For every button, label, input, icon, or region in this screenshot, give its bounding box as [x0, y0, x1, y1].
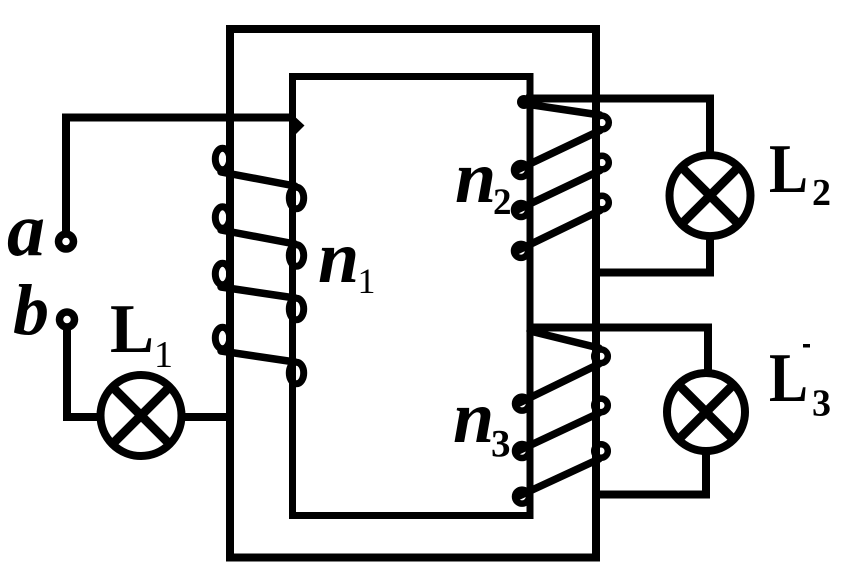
svg-text:3: 3 [812, 383, 831, 425]
winding n2 crossing 3 [517, 211, 600, 251]
winding n2 right loop 1 [595, 116, 609, 130]
winding n3 crossing 3 [518, 459, 599, 497]
transformer core inner rectangle [293, 77, 531, 516]
winding n3 left loop 1 [515, 397, 529, 411]
winding n3 entry crossing [530, 331, 599, 348]
winding n2 entry crossing [526, 104, 600, 115]
winding n1 entry bend [292, 114, 305, 138]
terminal b [60, 312, 75, 327]
wire: lamp L1 to core left edge [182, 413, 231, 421]
winding n1 left loop 1 [215, 148, 229, 170]
winding n3 right loop 1 [594, 350, 608, 364]
svg-text:1: 1 [154, 334, 173, 376]
lamp L1 [101, 375, 182, 456]
winding n1 right loop 2 [289, 245, 303, 267]
svg-text:L: L [769, 131, 808, 208]
winding n1 left loop 4 [215, 327, 229, 349]
svg-text:a: a [7, 188, 45, 272]
winding n3 right loop 3 [594, 444, 608, 458]
winding n2 right loop 2 [595, 156, 609, 170]
winding n2 crossing 1 [517, 131, 600, 171]
winding n1 crossing 3 [221, 287, 295, 298]
svg-text:1: 1 [358, 261, 376, 301]
svg-text:L: L [769, 340, 808, 417]
winding n1 right loop 3 [289, 298, 303, 320]
svg-text:b: b [13, 270, 49, 350]
transformer core outer rectangle [230, 29, 596, 558]
winding n3 left loop 3 [515, 490, 529, 504]
winding n2 right loop 3 [595, 196, 609, 210]
wire: winding n3 top to lamp L3 [530, 328, 708, 372]
winding n1 right loop 1 [289, 187, 303, 209]
wire: lamp L2 bottom return to core [596, 236, 710, 273]
winding n1 crossing 2 [221, 230, 295, 244]
winding n3 crossing 1 [518, 364, 599, 404]
winding n3 crossing 2 [518, 413, 599, 451]
ink speck above label L3 [803, 344, 810, 348]
svg-text:2: 2 [812, 172, 831, 214]
wire: lamp L3 bottom return to core [596, 451, 706, 495]
svg-text:n: n [455, 137, 496, 219]
winding n1 left loop 3 [215, 263, 229, 285]
winding n1 crossing 4 [221, 351, 295, 362]
wire: winding n2 top to lamp L2 [526, 99, 710, 154]
winding n2 left loop 2 [514, 203, 528, 217]
terminal a [59, 234, 74, 249]
winding n2 left loop 1 [514, 163, 528, 177]
winding n2 crossing 2 [517, 171, 600, 211]
svg-text:n: n [318, 217, 359, 299]
node: junction dot at top of winding n2 [517, 95, 531, 109]
svg-text:3: 3 [491, 423, 511, 466]
winding n3 right loop 2 [594, 399, 608, 413]
primary winding n1 [215, 114, 304, 384]
lamp L2 [670, 155, 751, 236]
svg-text:L: L [110, 291, 154, 368]
winding n3 left loop 2 [515, 444, 529, 458]
lamp L3 [667, 373, 745, 451]
secondary winding n2 [514, 104, 609, 258]
wire: terminal b down and right to lamp L1 [67, 330, 98, 417]
svg-text:n: n [453, 377, 494, 459]
svg-text:2: 2 [493, 182, 512, 223]
winding n1 crossing 1 [221, 172, 295, 186]
secondary winding n3 [515, 331, 608, 504]
winding n2 left loop 3 [514, 244, 528, 258]
wire: terminal a up and right to primary winding [66, 118, 292, 232]
winding n1 left loop 2 [215, 207, 229, 229]
winding n1 right loop 4 [289, 362, 303, 384]
